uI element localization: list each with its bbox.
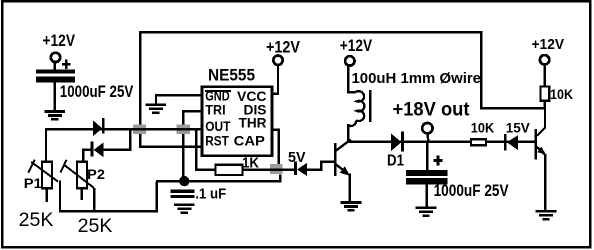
svg-text:+12V: +12V — [266, 38, 301, 57]
svg-text:+12V: +12V — [532, 36, 565, 53]
svg-text:15V: 15V — [506, 119, 531, 135]
svg-text:NE555: NE555 — [208, 66, 255, 85]
svg-text:TRI: TRI — [205, 102, 225, 118]
svg-text:5V: 5V — [288, 150, 306, 166]
svg-text:P1: P1 — [24, 176, 43, 191]
svg-text:D1: D1 — [387, 152, 404, 169]
svg-text:10K: 10K — [471, 119, 494, 135]
svg-text:100uH 1mm Øwire: 100uH 1mm Øwire — [352, 71, 482, 87]
svg-text:THR: THR — [239, 115, 267, 131]
svg-text:OUT: OUT — [205, 118, 231, 134]
svg-text:RST: RST — [205, 133, 229, 149]
svg-text:+18V out: +18V out — [393, 98, 470, 120]
svg-text:+12V: +12V — [43, 31, 76, 50]
svg-text:+12V: +12V — [340, 36, 373, 55]
svg-text:1000uF 25V: 1000uF 25V — [434, 181, 510, 200]
svg-text:1K: 1K — [242, 156, 259, 172]
svg-text:.1 uF: .1 uF — [195, 187, 226, 203]
svg-text:25K: 25K — [19, 209, 54, 231]
svg-text:P2: P2 — [87, 167, 105, 182]
svg-text:1000uF 25V: 1000uF 25V — [60, 82, 134, 101]
svg-text:CAP: CAP — [234, 133, 265, 149]
svg-text:10K: 10K — [550, 86, 573, 102]
svg-text:25K: 25K — [78, 215, 113, 237]
